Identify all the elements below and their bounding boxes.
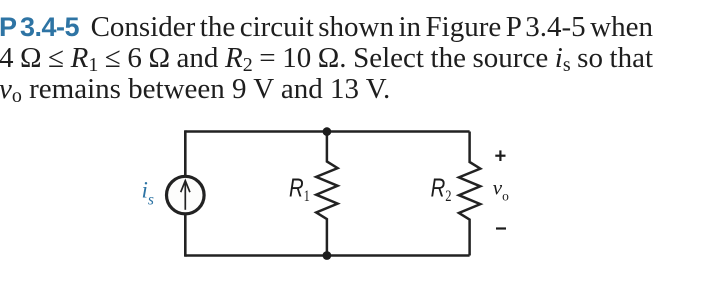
node junction bottom — [323, 251, 332, 260]
resistor R1 — [316, 132, 337, 256]
label - (vo polarity) — [496, 227, 506, 229]
wire left lower — [184, 215, 187, 257]
svg-text:R2: R2 — [431, 173, 452, 205]
value label R2 — [431, 173, 452, 205]
svg-text:vo: vo — [493, 175, 509, 203]
svg-text:R1: R1 — [289, 173, 310, 205]
wire top — [185, 130, 469, 132]
svg-text:is: is — [142, 177, 154, 208]
current source is — [167, 176, 205, 214]
wire bottom — [185, 254, 469, 256]
resistor R2 — [459, 132, 480, 256]
wire left upper — [184, 130, 187, 175]
node junction top — [323, 127, 332, 136]
label + (vo polarity) — [495, 150, 505, 161]
value label R1 — [289, 173, 310, 205]
